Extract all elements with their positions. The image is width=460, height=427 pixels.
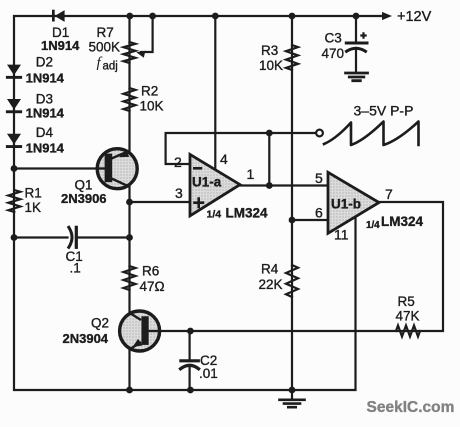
svg-text:U1-a: U1-a — [192, 175, 222, 190]
svg-text:10K: 10K — [259, 58, 283, 73]
svg-text:5: 5 — [315, 170, 323, 186]
svg-text:R7: R7 — [97, 25, 114, 40]
svg-text:R2: R2 — [141, 84, 158, 99]
svg-text:4: 4 — [220, 151, 228, 167]
svg-text:R4: R4 — [261, 262, 279, 277]
svg-text:1/4: 1/4 — [207, 209, 222, 221]
svg-text:D3: D3 — [36, 92, 53, 107]
svg-text:+12V: +12V — [397, 9, 432, 25]
svg-text:22K: 22K — [259, 277, 283, 292]
svg-text:U1-b: U1-b — [331, 197, 361, 212]
svg-text:1K: 1K — [25, 200, 42, 215]
svg-text:1N914: 1N914 — [41, 38, 80, 53]
svg-text:2: 2 — [174, 154, 182, 170]
svg-text:1: 1 — [247, 166, 255, 182]
svg-text:SeekIC.com: SeekIC.com — [367, 399, 455, 416]
svg-text:1N914: 1N914 — [26, 140, 65, 155]
svg-text:11: 11 — [334, 227, 349, 243]
svg-text:500K: 500K — [89, 40, 121, 55]
svg-text:D2: D2 — [36, 55, 53, 70]
svg-text:LM324: LM324 — [226, 206, 269, 221]
svg-text:R3: R3 — [261, 43, 278, 58]
svg-text:.1: .1 — [70, 261, 81, 276]
svg-text:3: 3 — [175, 185, 183, 201]
svg-text:6: 6 — [315, 205, 323, 221]
svg-text:LM324: LM324 — [381, 214, 424, 229]
svg-text:R5: R5 — [398, 294, 415, 309]
svg-text:2N3906: 2N3906 — [61, 191, 107, 206]
svg-text:47K: 47K — [396, 309, 420, 324]
svg-text:7: 7 — [385, 186, 393, 202]
svg-text:1N914: 1N914 — [26, 71, 65, 86]
svg-text:R1: R1 — [25, 186, 42, 201]
svg-text:470: 470 — [322, 46, 345, 61]
svg-text:10K: 10K — [140, 99, 164, 114]
svg-text:2N3904: 2N3904 — [63, 331, 109, 346]
svg-text:.01: .01 — [199, 366, 218, 381]
svg-text:Q2: Q2 — [91, 316, 109, 331]
svg-text:adj: adj — [103, 61, 118, 73]
svg-text:D4: D4 — [36, 125, 54, 140]
svg-text:47Ω: 47Ω — [140, 279, 165, 294]
svg-text:3–5V P-P: 3–5V P-P — [354, 103, 414, 119]
svg-text:R6: R6 — [142, 264, 159, 279]
svg-text:1N914: 1N914 — [26, 105, 65, 120]
svg-text:C3: C3 — [325, 31, 342, 46]
svg-text:1/4: 1/4 — [366, 220, 380, 231]
